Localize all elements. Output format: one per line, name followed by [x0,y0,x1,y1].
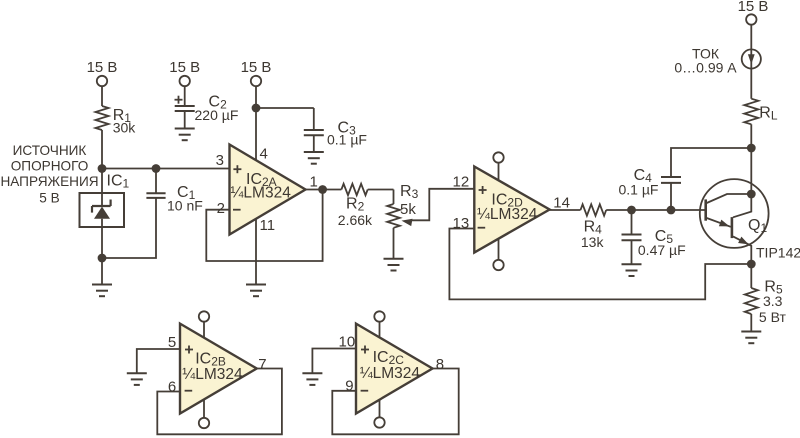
svg-text:3: 3 [216,152,224,169]
svg-text:220 µF: 220 µF [195,107,239,123]
svg-text:9: 9 [345,378,353,395]
svg-text:0.1 µF: 0.1 µF [619,181,659,197]
svg-text:10: 10 [339,334,356,351]
svg-text:5 В: 5 В [39,191,59,206]
svg-text:НАПРЯЖЕНИЯ: НАПРЯЖЕНИЯ [0,174,98,189]
svg-text:7: 7 [258,356,266,373]
svg-text:0.47 µF: 0.47 µF [638,242,686,258]
svg-text:10 nF: 10 nF [167,197,203,213]
svg-text:0.1 µF: 0.1 µF [327,131,367,147]
svg-text:¼LM324: ¼LM324 [360,365,421,382]
svg-text:5: 5 [168,334,176,351]
svg-text:13: 13 [453,215,470,232]
svg-text:6: 6 [168,378,176,395]
svg-text:15 В: 15 В [241,59,272,76]
svg-text:4: 4 [260,146,268,163]
svg-text:¼LM324: ¼LM324 [231,185,292,202]
svg-text:5k: 5k [400,201,416,218]
svg-text:11: 11 [260,217,276,234]
svg-text:1: 1 [310,174,318,191]
svg-text:8: 8 [436,356,444,373]
svg-text:15 В: 15 В [738,0,769,15]
svg-text:0…0.99 А: 0…0.99 А [674,60,737,76]
svg-text:5 Вт: 5 Вт [759,309,787,325]
svg-text:TIP142: TIP142 [756,245,800,261]
svg-text:15 В: 15 В [87,59,118,76]
svg-text:¼LM324: ¼LM324 [477,206,538,223]
svg-text:30k: 30k [113,120,137,136]
svg-text:12: 12 [453,173,470,190]
svg-text:14: 14 [553,195,570,212]
svg-text:2: 2 [217,200,225,217]
svg-text:15 В: 15 В [169,59,200,76]
svg-text:2.66k: 2.66k [338,212,373,228]
svg-text:¼LM324: ¼LM324 [182,366,243,383]
svg-text:3.3: 3.3 [763,293,783,309]
svg-text:ИСТОЧНИК: ИСТОЧНИК [13,143,87,158]
svg-text:ОПОРНОГО: ОПОРНОГО [11,159,89,174]
svg-text:13k: 13k [581,234,605,250]
